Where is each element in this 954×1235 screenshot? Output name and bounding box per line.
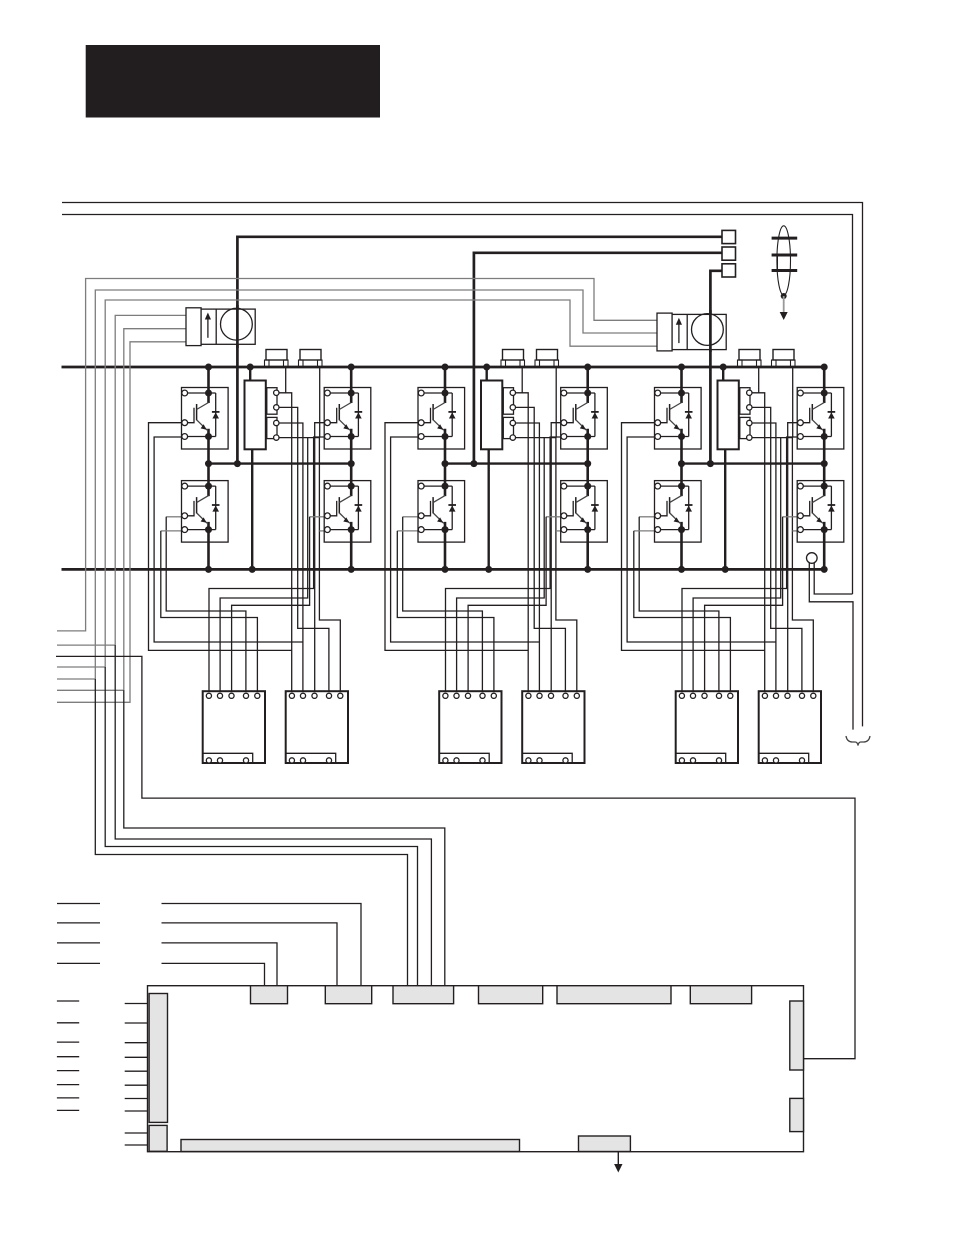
control board top connector 2 (325, 986, 371, 1004)
main control board outline (148, 986, 804, 1152)
control board top connector 3 (393, 986, 454, 1004)
wire: long feed to control board right connector (56, 656, 855, 1058)
wire: board left pin stub 4 (125, 1056, 148, 1058)
wire: feed through sensor 1 (236, 305, 239, 348)
wire: to pad1 a (162, 943, 278, 986)
cable wire bar 3 (772, 269, 798, 272)
wire: far-left stub 6 (57, 1084, 79, 1086)
wire: mid stub 2 (57, 922, 100, 924)
wire: to pad1 b (162, 963, 265, 985)
wire: sensor1 signal 1 to left edge (57, 315, 186, 645)
wire: board left pin stub 10 (125, 1144, 148, 1146)
wire: thermistor lead A (809, 563, 853, 730)
wire: board left pin stub 3 (125, 1042, 148, 1044)
wire: to pad2 b (162, 923, 338, 986)
wire: phase U output feed through current sensor 1 (237, 237, 722, 464)
wire: board left pin stub 6 (125, 1084, 148, 1086)
cable wire bar 2 (772, 254, 798, 257)
wire: thermistor lead B joins top wire 2 (814, 563, 852, 594)
wire: far-left stub 8 (57, 1109, 79, 1111)
sensor 1 circle (221, 308, 253, 340)
wire: to pad2 a (162, 904, 362, 986)
wire: board left pin stub 7 (125, 1098, 148, 1100)
wire: board left pin stub 8 (125, 1110, 148, 1112)
output terminal 1 (722, 230, 736, 243)
wire: feed to control board pad3 b (105, 667, 417, 986)
wire: phase W output feed through current sensor 2 (710, 271, 722, 464)
wire: board left pin stub 1 (125, 1003, 148, 1005)
wire: mid stub 1 (57, 903, 100, 905)
DC+ bus (62, 366, 825, 369)
wire: far-left stub 5 (57, 1070, 79, 1072)
wire: far-left stub 3 (57, 1041, 79, 1043)
output terminal 3 (722, 264, 736, 277)
wire: sensor2 signal 1 to left edge (57, 279, 657, 631)
wire: far-left stub 1 (57, 1000, 79, 1002)
sensor 2 circle (692, 314, 724, 346)
control board top connector 1 (251, 986, 288, 1004)
control board top connector 5 (557, 986, 671, 1004)
wire: sensor1 signal 3 to left edge (57, 342, 186, 703)
wire: far-left stub 4 (57, 1056, 79, 1058)
wire: phase V output feed (474, 253, 722, 464)
wire: sensor2 signal 2 to left edge (57, 290, 657, 679)
inverter leg U (149, 350, 371, 764)
wire: top routed wire 2 (to thermistor) (62, 215, 853, 595)
wire: top routed wire 1 (to off-page brace) (62, 203, 863, 727)
wire: board left pin stub 5 (125, 1070, 148, 1072)
motor cable loop ellipse (777, 226, 791, 295)
cable end dot and arrow to motor (781, 293, 787, 299)
ground arrow below board (617, 1152, 619, 1167)
wire: mid stub 4 (57, 962, 100, 964)
control board top connector 4 (479, 986, 543, 1004)
wire: board left pin stub 2 (125, 1022, 148, 1024)
inverter leg W (622, 350, 844, 764)
wire: feed to control board pad3 a (95, 679, 407, 986)
wire: mid stub 3 (57, 942, 100, 944)
output terminal 2 (722, 247, 736, 260)
control board right connector (790, 1001, 804, 1070)
control board right lower connector (790, 1098, 804, 1131)
wire: sensor2 signal 3 to left edge (57, 300, 657, 667)
wire: board left pin stub 9 (125, 1132, 148, 1134)
wire: far-left stub 7 (57, 1097, 79, 1099)
wire: feed to control board pad3 c (115, 645, 431, 986)
wire: far-left stub 2 (57, 1022, 79, 1024)
wire: sensor1 signal 2 to left edge (57, 329, 186, 691)
brace (continuation) (846, 736, 870, 746)
title block (solid) (86, 45, 380, 118)
control board left lower connector (149, 1125, 167, 1151)
thermistor sensor circle (807, 553, 818, 564)
wire: feed through sensor 2 (709, 310, 712, 352)
current sensor 1 (phase U) (186, 308, 255, 346)
control board bottom bar connector (181, 1140, 520, 1152)
inverter leg V (385, 350, 607, 764)
control board bottom mid connector (579, 1136, 631, 1152)
control board top connector 6 (690, 986, 751, 1004)
wire: feed to control board pad3 d (124, 690, 445, 985)
cable wire bar 1 (772, 237, 798, 240)
current sensor 2 (phase W) (657, 313, 726, 351)
DC- bus (62, 568, 825, 571)
control board left connector (149, 994, 167, 1123)
